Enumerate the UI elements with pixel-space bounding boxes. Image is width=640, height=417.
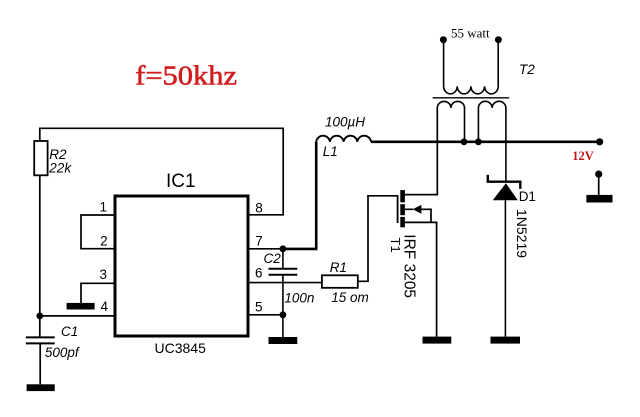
- wire T2 primary left leg: [443, 41, 445, 86]
- inductor L1: [316, 136, 371, 142]
- svg-text:T1: T1: [388, 238, 403, 253]
- svg-text:55 watt: 55 watt: [451, 26, 490, 41]
- ground near pin 3: [67, 303, 95, 310]
- node T2 primary right terminal: [495, 36, 502, 43]
- wire secondary B left leg: [477, 108, 479, 142]
- wire pins 1-2 loop: [81, 215, 116, 249]
- ground under 12V terminal: [586, 195, 612, 203]
- wire diode to ground: [504, 200, 506, 336]
- wire pin 5: [249, 314, 283, 316]
- svg-text:3: 3: [99, 267, 107, 282]
- node junction pin4/C1: [36, 313, 43, 320]
- wire body arrow line: [405, 209, 431, 222]
- node T2 primary left terminal: [440, 36, 447, 43]
- wire top rail from R2 to pin 8: [40, 128, 283, 215]
- node pin 5 junction: [280, 311, 287, 318]
- svg-text:D1: D1: [519, 189, 536, 204]
- ground under pin 5: [269, 337, 298, 344]
- svg-text:IRF 3205: IRF 3205: [401, 234, 418, 298]
- svg-text:8: 8: [255, 201, 263, 216]
- svg-text:1N5219: 1N5219: [514, 209, 530, 258]
- op-amp box IC1: [115, 196, 248, 336]
- capacitor C1: [26, 337, 55, 343]
- wire pin 6 to R1: [249, 282, 322, 284]
- svg-text:L1: L1: [323, 144, 338, 159]
- svg-text:15 om: 15 om: [331, 290, 369, 305]
- transformer T2 secondary winding B: [478, 101, 506, 108]
- svg-text:f=50khz: f=50khz: [135, 61, 237, 91]
- transistor Q1 gate wire from R1: [358, 196, 398, 281]
- node ground output terminal: [595, 171, 602, 178]
- node T2 secondary B junction: [475, 138, 482, 145]
- transistor Q1 source bar: [400, 217, 405, 227]
- diode D1 cathode bar: [488, 175, 521, 189]
- wire secondary A left leg to drain: [405, 108, 437, 195]
- diode D1 triangle: [493, 183, 518, 200]
- wire pin5 node to ground: [282, 315, 284, 337]
- svg-text:1: 1: [99, 199, 107, 214]
- wire C2 bottom to pin5 node: [282, 276, 284, 316]
- svg-text:5: 5: [255, 300, 263, 315]
- wire T2 primary right leg: [497, 41, 499, 86]
- wire R2 to C1 left rail: [39, 175, 41, 336]
- wire secondary B right leg to diode: [505, 108, 507, 182]
- svg-text:R1: R1: [330, 260, 347, 275]
- svg-text:2: 2: [100, 234, 108, 249]
- wire pin 7: [249, 248, 283, 250]
- wire pin7 node up to L1 (thick): [283, 142, 316, 249]
- capacitor C2: [269, 269, 298, 275]
- transistor Q1 gate bar: [397, 195, 399, 223]
- wire drain: [405, 194, 437, 196]
- resistor R2: [34, 141, 47, 175]
- svg-text:22k: 22k: [48, 161, 72, 176]
- svg-text:C2: C2: [264, 251, 282, 266]
- svg-text:C1: C1: [61, 324, 78, 339]
- svg-text:UC3845: UC3845: [155, 340, 207, 356]
- transistor Q1 drain bar: [400, 190, 405, 202]
- svg-text:12V: 12V: [572, 149, 594, 163]
- capacitor C2 top wire: [282, 249, 284, 268]
- node T2 secondary A junction: [461, 138, 468, 145]
- svg-text:100µH: 100µH: [325, 115, 365, 130]
- transformer T2 primary winding: [444, 86, 499, 94]
- svg-text:T2: T2: [519, 62, 535, 77]
- node pin 7 junction: [280, 245, 287, 252]
- wire ground terminal: [598, 174, 600, 195]
- wire pin 4: [40, 315, 116, 317]
- svg-text:4: 4: [100, 299, 108, 314]
- wire secondary A right leg: [464, 108, 466, 142]
- svg-text:100n: 100n: [284, 290, 314, 305]
- svg-text:500pf: 500pf: [45, 345, 80, 360]
- transistor Q1 body bar: [400, 204, 405, 215]
- wire C1 to ground: [39, 344, 41, 385]
- svg-text:6: 6: [255, 265, 263, 280]
- resistor R1: [322, 275, 358, 288]
- ground under transistor: [423, 337, 452, 344]
- wire pin 3 to ground: [81, 283, 116, 303]
- transformer T2 secondary winding A: [437, 101, 464, 108]
- wire source to ground: [405, 222, 437, 336]
- wire main 12V rail: [371, 141, 600, 144]
- svg-text:7: 7: [255, 233, 263, 248]
- node 12V output terminal: [596, 138, 603, 145]
- svg-text:IC1: IC1: [166, 171, 196, 192]
- ground under C1: [27, 384, 55, 391]
- transistor Q1 body arrow: [413, 205, 422, 214]
- ground under diode: [491, 337, 521, 344]
- transformer T2 core: [433, 97, 510, 99]
